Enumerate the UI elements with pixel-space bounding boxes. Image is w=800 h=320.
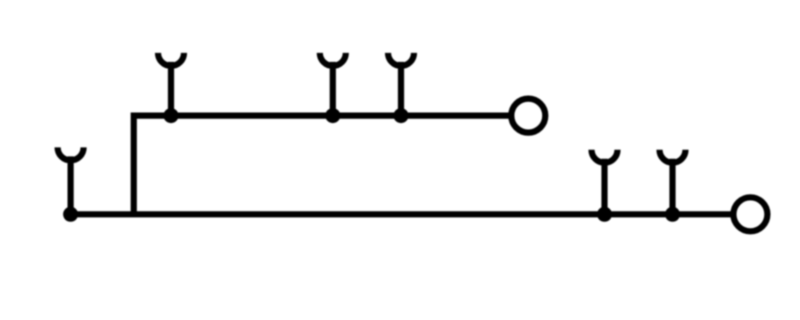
clamp contact 4 (upper rail): cup and stem: [388, 53, 414, 116]
clamp contact 1 (lower rail, left end): cup and stem: [58, 147, 84, 214]
node: junction dot of clamp 2: [164, 108, 179, 123]
clamp contact 3 (upper rail): cup and stem: [320, 53, 346, 116]
node: junction dot of clamp 4: [394, 108, 409, 123]
node: junction dot of clamp 1: [63, 207, 78, 222]
terminal circle at upper rail right end: [511, 99, 545, 133]
node: junction dot of clamp 6: [665, 207, 680, 222]
node: junction dot of clamp 5: [597, 207, 612, 222]
node: junction dot of clamp 3: [325, 108, 340, 123]
terminal circle at lower rail right end: [733, 197, 767, 231]
wire: upper rail turning down at left into vertical link: [134, 116, 509, 215]
clamp contact 2 (upper rail): cup and stem: [158, 53, 184, 116]
clamp contact 5 (lower rail): cup and stem: [592, 150, 618, 215]
wire: lower rail: [71, 211, 731, 217]
clamp contact 6 (lower rail): cup and stem: [660, 150, 686, 215]
